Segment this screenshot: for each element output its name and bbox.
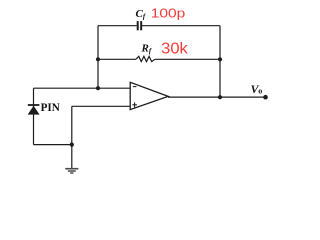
output terminal dot — [263, 95, 268, 100]
op-amp U1 triangle — [130, 82, 168, 109]
resistor R_f zigzag — [136, 56, 155, 61]
junction dot at right vertical / output line — [218, 95, 222, 99]
diode PIN: cathode bar — [28, 104, 40, 106]
op-amp minus input sign — [133, 86, 137, 88]
wire: feedback top (capacitor branch) right segment — [142, 25, 220, 27]
wire: feedback resistor branch right segment — [155, 58, 220, 60]
svg-text:100p: 100p — [151, 5, 186, 20]
wire: inverting input line — [34, 87, 131, 89]
wire: diode cathode vertical — [33, 88, 35, 144]
wire: non-inverting vertical drop — [71, 106, 73, 144]
wire: non-inverting input line — [72, 105, 130, 107]
wire: op-amp output — [168, 96, 266, 98]
wire: right feedback vertical — [219, 26, 221, 98]
op-amp plus input sign — [132, 102, 137, 107]
svg-text:o: o — [258, 87, 262, 96]
junction dot at right vertical / resistor line — [218, 57, 222, 61]
junction dot at left vertical / resistor line — [96, 57, 100, 61]
wire: ground drop — [71, 145, 73, 169]
diode PIN: anode triangle — [28, 106, 40, 115]
junction dot at left vertical / inverting line — [96, 86, 100, 90]
wire: left feedback vertical — [97, 26, 99, 88]
junction dot at bottom return / ground drop — [70, 143, 74, 147]
svg-text:30k: 30k — [161, 41, 188, 58]
wire: feedback resistor branch left segment — [98, 58, 136, 60]
svg-text:PIN: PIN — [41, 100, 61, 114]
svg-text:Rf: Rf — [141, 43, 152, 56]
ground symbol — [65, 169, 78, 173]
capacitor C_f — [138, 21, 142, 30]
wire: bottom return — [34, 144, 72, 146]
svg-text:Cf: Cf — [136, 8, 146, 21]
wire: feedback top (capacitor branch) left segment — [98, 25, 137, 27]
